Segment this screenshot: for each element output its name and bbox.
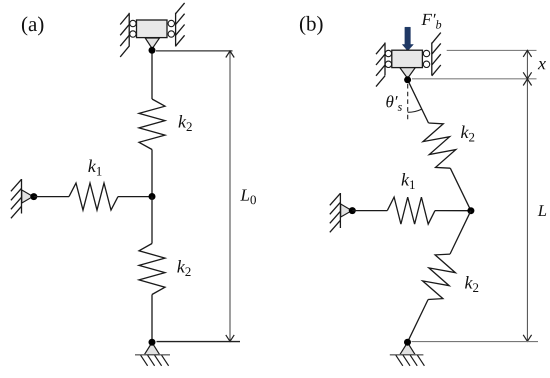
label k2 (b lower)	[465, 276, 478, 292]
top slider support (a): rollers	[130, 20, 175, 37]
spring k2 upper (a)	[139, 99, 165, 150]
top slider support (a): right hatched wall	[176, 3, 185, 47]
top slider support (b): pin triangle	[400, 68, 415, 79]
wire: middle link upper (a)	[151, 150, 153, 197]
ground support (b)	[400, 343, 415, 355]
label (b)	[300, 16, 323, 35]
top slider support (b): block	[392, 50, 423, 67]
label (a)	[22, 16, 43, 35]
label L0	[240, 189, 256, 204]
label x	[538, 61, 546, 69]
top slider support (a): left hatched wall	[120, 13, 129, 57]
extension line top (b)	[447, 49, 537, 51]
extension line bottom (a)	[157, 341, 241, 343]
label k2 (a lower)	[177, 260, 190, 276]
label k1 (b)	[402, 173, 415, 189]
wire: top link (a)	[151, 50, 153, 99]
label L	[538, 205, 547, 216]
label k2 (b upper)	[461, 126, 474, 142]
wire: bottom link (a)	[151, 295, 153, 343]
node: top pin joint (a)	[149, 47, 156, 54]
label k1 (a)	[88, 160, 101, 176]
spring k2 upper (b)	[423, 123, 456, 168]
wire: spring to node (b)	[450, 168, 471, 211]
node: central joint (b)	[467, 207, 474, 214]
label theta_s	[386, 95, 402, 111]
left wall support (b)	[330, 193, 341, 232]
left wall support (a)	[11, 179, 22, 218]
node: central joint (a)	[149, 193, 156, 200]
dashed reference line (b)	[407, 84, 409, 122]
top slider support (a): pin triangle	[145, 38, 159, 49]
wire: node to lower spring (b)	[450, 211, 471, 254]
wire: k1 right lead (b)	[435, 210, 471, 212]
spring k1 (a)	[69, 183, 118, 210]
dimension line L	[526, 79, 528, 341]
dimension line x	[526, 50, 528, 78]
spring k2 lower (b)	[423, 254, 456, 299]
ground support (a)	[144, 343, 159, 355]
angle arc theta_s	[408, 109, 422, 112]
wire: middle link lower (a)	[151, 197, 153, 244]
node: left wall pin (a)	[30, 193, 37, 200]
extension line top (a)	[156, 50, 233, 52]
wire: lower spring to bottom pin (b)	[408, 300, 429, 343]
node: left wall pin (b)	[349, 207, 356, 214]
label k2 (a upper)	[179, 115, 192, 131]
wire: k1 left lead (a)	[34, 196, 69, 198]
label F'b	[421, 14, 441, 29]
dimension line L0	[229, 51, 231, 341]
wire: k1 left lead (b)	[352, 210, 387, 212]
force F'b arrow	[402, 27, 413, 51]
extension line bottom (b)	[412, 341, 539, 343]
wire: top link (b)	[408, 80, 429, 123]
node: bottom pin (a)	[149, 339, 156, 346]
node: top pin joint (b)	[404, 76, 411, 83]
top slider support (b): right hatched wall	[432, 33, 441, 76]
top slider support (b): rollers	[385, 50, 430, 67]
top slider support (b): left hatched wall	[376, 43, 385, 87]
top slider support (a): block	[137, 20, 168, 38]
spring k1 (b)	[387, 197, 435, 224]
extension line at pin (b)	[412, 78, 537, 80]
wire: k1 right lead (a)	[118, 196, 152, 198]
node: bottom pin (b)	[404, 339, 411, 346]
spring k2 lower (a)	[139, 244, 165, 295]
